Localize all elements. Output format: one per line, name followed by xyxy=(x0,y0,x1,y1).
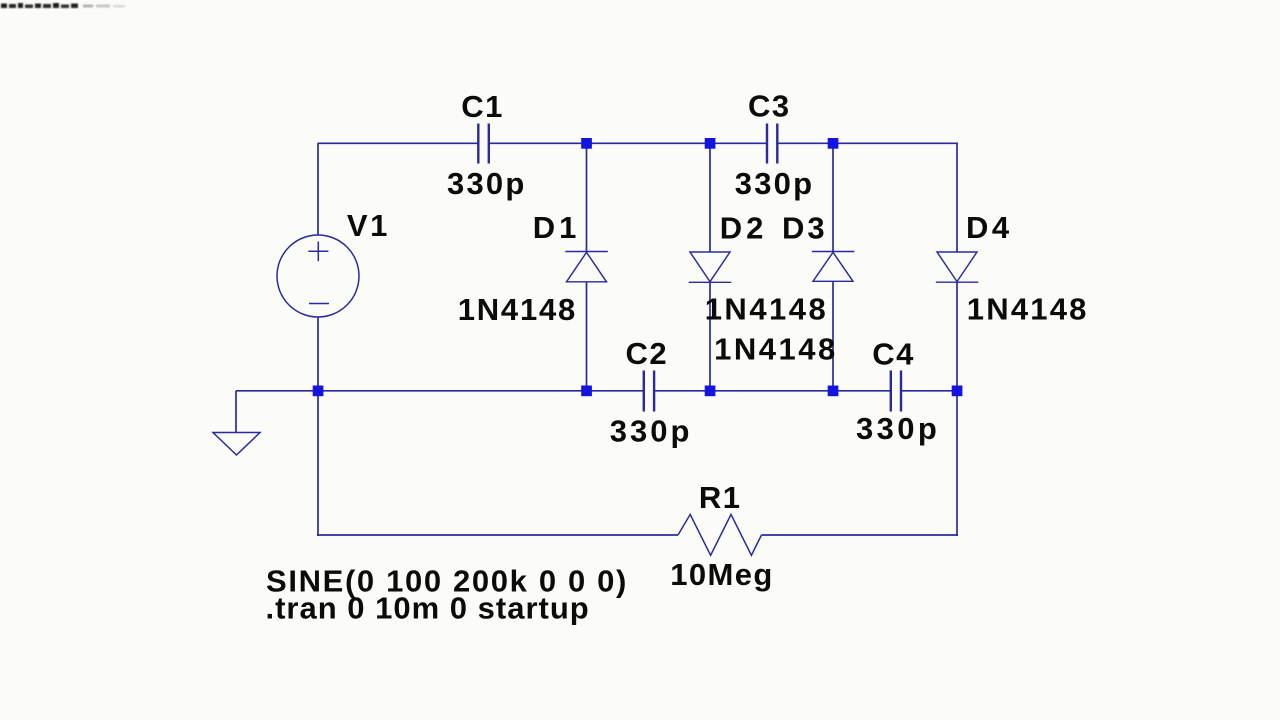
svg-text:V1: V1 xyxy=(347,208,390,243)
svg-text:10Meg: 10Meg xyxy=(670,557,773,592)
diode D1 xyxy=(565,252,608,282)
svg-text:.tran 0 10m 0 startup: .tran 0 10m 0 startup xyxy=(266,590,590,625)
wire mid row left segment xyxy=(318,390,644,392)
voltage source V1 xyxy=(277,235,359,317)
wire bottom right segment xyxy=(762,534,959,536)
svg-text:C4: C4 xyxy=(872,337,915,372)
node junction top D3 xyxy=(828,138,839,149)
resistor R1 xyxy=(678,514,762,555)
svg-text:D1: D1 xyxy=(533,210,581,245)
svg-text:1N4148: 1N4148 xyxy=(458,292,577,327)
wire left vertical to bottom xyxy=(317,391,319,536)
capacitor C4 xyxy=(891,371,901,412)
svg-text:330p: 330p xyxy=(735,166,814,201)
node junction top D2 xyxy=(705,138,716,149)
node junction mid D3 xyxy=(828,386,839,397)
svg-text:1N4148: 1N4148 xyxy=(967,292,1089,327)
node junction top D1 xyxy=(581,138,592,149)
wire D3 bottom stem xyxy=(832,281,834,391)
capacitor C2 xyxy=(644,371,654,412)
wire D2 bottom stem xyxy=(709,282,711,391)
svg-text:D2: D2 xyxy=(720,211,768,246)
svg-text:C3: C3 xyxy=(748,89,791,124)
wire ground branch vertical xyxy=(235,391,237,433)
capacitor C1 xyxy=(478,124,489,164)
wire D2 top stem xyxy=(709,143,711,252)
wire bottom left segment xyxy=(317,534,678,536)
ground xyxy=(213,433,260,456)
wire D4 top stem xyxy=(956,143,958,251)
clipped title text artifact top-left xyxy=(1,3,125,8)
svg-text:330p: 330p xyxy=(610,414,693,449)
diode D3 xyxy=(812,252,855,282)
svg-text:1N4148: 1N4148 xyxy=(705,292,829,327)
wire top C3 to right corner xyxy=(778,142,958,144)
wire D4 bottom stem xyxy=(956,282,958,391)
svg-text:330p: 330p xyxy=(856,411,940,446)
wire V1 bottom stem xyxy=(317,317,319,392)
wire ground branch horizontal xyxy=(236,390,318,392)
node junction mid D4 xyxy=(952,386,963,397)
svg-text:330p: 330p xyxy=(447,166,526,201)
wire top C1 to C3 xyxy=(490,142,767,144)
wire top V1 to C1 xyxy=(318,142,478,144)
svg-text:R1: R1 xyxy=(699,480,742,515)
svg-text:C2: C2 xyxy=(626,336,669,371)
wire mid row center segment xyxy=(655,390,891,392)
svg-text:C1: C1 xyxy=(461,89,504,124)
diode D4 xyxy=(936,252,979,282)
wire mid row right segment xyxy=(902,390,958,392)
diode D2 xyxy=(689,252,732,282)
node junction mid D2 xyxy=(705,386,716,397)
wire D3 top stem xyxy=(832,143,834,251)
svg-text:D3: D3 xyxy=(782,211,828,246)
wire V1 top stem xyxy=(317,143,319,235)
wire D1 bottom stem xyxy=(586,282,588,391)
wire right vertical to bottom xyxy=(956,391,958,536)
node junction mid V1/ground xyxy=(313,386,324,397)
capacitor C3 xyxy=(767,124,777,164)
wire D1 top stem xyxy=(586,143,588,251)
node junction mid D1 xyxy=(581,386,592,397)
svg-text:1N4148: 1N4148 xyxy=(714,332,838,367)
svg-text:D4: D4 xyxy=(966,210,1013,245)
